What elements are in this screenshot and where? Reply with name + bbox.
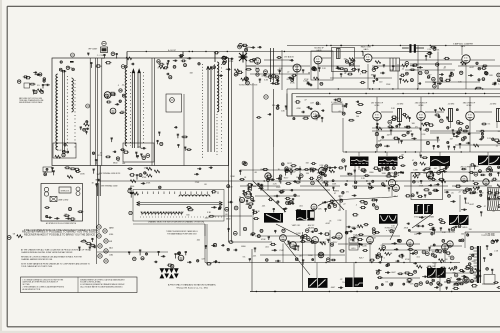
bottom mesh wire 3 <box>255 235 300 237</box>
svg-text:5%: 5% <box>396 173 399 175</box>
channel selector box <box>133 190 224 222</box>
coil L2A winding <box>125 68 127 146</box>
mid extra <box>318 200 369 225</box>
video det extra <box>293 100 321 120</box>
diagonal wire 1 <box>253 181 286 212</box>
IF mesh 1 <box>372 127 420 129</box>
osc converter cluster <box>214 45 255 63</box>
wire w <box>342 118 344 152</box>
svg-text:470K: 470K <box>235 74 240 76</box>
selector dotted row <box>140 216 222 218</box>
left FM trap boxes <box>43 168 55 176</box>
svg-text:270K: 270K <box>195 182 200 184</box>
left IF vertical <box>273 89 275 147</box>
left video drop <box>252 118 254 181</box>
svg-text:INTERLOCK: INTERLOCK <box>61 191 70 193</box>
tube V18 horiz AFC <box>367 237 374 244</box>
caption parts c <box>450 270 466 287</box>
tube V25 hor osc <box>483 179 489 185</box>
svg-text:.047: .047 <box>378 170 382 172</box>
tube V11 sync sep <box>318 167 325 174</box>
heater bus 2 <box>98 183 100 225</box>
svg-text:.05: .05 <box>100 152 103 154</box>
cathode drop <box>420 120 422 152</box>
wire to plates <box>402 47 409 49</box>
oscillator sub-box <box>123 143 154 162</box>
flyback right parts <box>483 239 499 283</box>
svg-text:.0047: .0047 <box>260 169 265 171</box>
cathode drop <box>376 120 378 152</box>
svg-text:120K: 120K <box>353 234 358 236</box>
svg-text:5%: 5% <box>243 257 246 259</box>
volume terminal 1 <box>256 68 259 71</box>
svg-text:R217: R217 <box>333 242 338 244</box>
tuner top extra <box>59 61 74 72</box>
svg-text:.001: .001 <box>299 205 303 207</box>
schematic bottom boundary <box>250 291 500 293</box>
oscillator trimmer box <box>166 94 182 112</box>
wire ps1 <box>214 215 252 217</box>
wire sy1 <box>260 189 330 191</box>
horizontal trunk <box>215 180 500 182</box>
B+ vertical trunk 2 <box>231 58 233 242</box>
above power box parts <box>64 167 85 178</box>
wire b1 <box>204 224 206 263</box>
sound vertical 3 <box>437 52 439 90</box>
svg-text:6AL5: 6AL5 <box>109 247 113 250</box>
svg-text:.0047: .0047 <box>391 272 396 274</box>
svg-text:120K: 120K <box>382 173 387 175</box>
svg-text:CHASSIS WERE AS SHOWN. SOME V: CHASSIS WERE AS SHOWN. SOME VERSIONS MAY… <box>21 251 73 254</box>
stage drop <box>282 243 284 262</box>
core line <box>61 70 63 152</box>
tuner sub-box <box>53 143 76 158</box>
svg-text:.001: .001 <box>196 239 200 241</box>
stage row wire <box>372 65 404 67</box>
bank B top parts <box>125 57 135 68</box>
waveform photo W4 <box>478 156 500 166</box>
bottom mesh wire 2 <box>380 249 440 251</box>
waveform photo W12 <box>427 268 446 278</box>
rectifier box <box>484 275 495 285</box>
sound IF shield box <box>311 51 333 80</box>
svg-text:LINE CORD: LINE CORD <box>58 200 69 202</box>
power extra 3 <box>377 252 442 286</box>
selector coil ticks <box>142 212 182 216</box>
svg-text:C142: C142 <box>276 187 281 189</box>
sound mesh 2 <box>330 77 392 79</box>
stage drop <box>314 243 316 262</box>
svg-text:470K: 470K <box>465 203 470 205</box>
svg-text:B+ BOOST: B+ BOOST <box>168 50 176 52</box>
B+ cluster <box>128 250 165 263</box>
bus drop 1 <box>126 52 128 66</box>
stage row wire <box>382 243 420 245</box>
vert hold control box <box>349 245 358 250</box>
svg-text:6800: 6800 <box>474 166 478 168</box>
vertical v2 <box>345 210 347 263</box>
plate feed <box>469 97 471 112</box>
wire m5 <box>252 212 254 236</box>
svg-text:.0047: .0047 <box>204 217 209 219</box>
svg-text:RECEIVER MAKES IT POSSIBLE TO: RECEIVER MAKES IT POSSIBLE TO BRING YOU … <box>22 230 100 234</box>
left edge parts <box>7 233 22 239</box>
svg-text:.001: .001 <box>416 257 420 259</box>
svg-text:47: 47 <box>412 160 414 162</box>
svg-text:.5: .5 <box>417 182 419 184</box>
coil L3 inner lead <box>214 64 216 152</box>
stage row wire <box>430 245 462 247</box>
stage row wire <box>430 130 470 132</box>
tube V20 damper <box>442 244 449 251</box>
tuner top mid parts <box>157 60 170 70</box>
svg-text:5%: 5% <box>470 282 473 284</box>
svg-text:.5: .5 <box>118 85 120 87</box>
vert osc parts <box>227 228 313 264</box>
waveform photo W2 <box>378 157 399 167</box>
yoke box 1 <box>488 188 500 199</box>
bus drop 4 <box>362 52 364 57</box>
svg-text:68: 68 <box>308 72 310 74</box>
svg-text:.05: .05 <box>394 196 397 198</box>
svg-text:CHANNEL SELECTOR SWITCH (SHOWN: CHANNEL SELECTOR SWITCH (SHOWN ON CHANNE… <box>148 220 205 223</box>
shielded lead <box>270 48 272 82</box>
svg-text:.5: .5 <box>428 191 430 193</box>
terminal 6AB4 <box>238 45 242 49</box>
former dots A <box>66 76 68 150</box>
IF transformer T3 <box>449 109 453 122</box>
svg-text:470K: 470K <box>423 173 428 175</box>
svg-text:.22: .22 <box>287 71 290 73</box>
sound stage drop <box>437 64 439 89</box>
tube V28 vert osc b <box>290 242 297 249</box>
video det parts <box>301 98 347 122</box>
former dots C <box>221 64 223 152</box>
coil L1B winding <box>72 78 74 112</box>
top labels <box>239 43 262 51</box>
vertical v3 <box>329 230 331 263</box>
plate feed <box>420 97 422 112</box>
antenna block <box>24 83 30 88</box>
stage row wire <box>410 63 452 65</box>
audio section extra <box>246 56 296 85</box>
damper parts <box>439 222 469 236</box>
svg-text:.001: .001 <box>317 104 321 106</box>
svg-text:68: 68 <box>225 214 227 216</box>
svg-text:.047: .047 <box>299 255 303 257</box>
svg-text:.001: .001 <box>265 247 269 249</box>
wire if2 <box>425 111 444 113</box>
right of selector parts <box>208 191 233 221</box>
svg-text:.22: .22 <box>380 245 383 247</box>
svg-text:.001: .001 <box>438 252 442 254</box>
wire m2 <box>419 152 421 156</box>
svg-text:.5: .5 <box>396 181 398 183</box>
photo lead b3 <box>439 166 441 170</box>
selector coil row 1 <box>179 195 210 197</box>
waveform captions <box>347 166 403 175</box>
svg-text:C142: C142 <box>326 239 331 241</box>
svg-text:68: 68 <box>118 160 120 162</box>
AC power box <box>41 184 83 222</box>
photo lead <box>358 152 360 156</box>
wire sy6 <box>299 166 301 181</box>
sync mesh 3 <box>446 171 500 173</box>
AFC extra <box>372 225 435 258</box>
AGC parts <box>248 201 302 216</box>
xfmr lead <box>399 122 401 129</box>
osc top parts <box>213 56 234 77</box>
bottom mesh wire 1 <box>260 254 345 256</box>
svg-text:270K: 270K <box>229 61 234 63</box>
waveform photo W9 <box>449 215 469 225</box>
wire if3 <box>474 111 492 113</box>
svg-text:100: 100 <box>436 268 439 270</box>
stage row wire <box>380 277 420 279</box>
svg-text:470K: 470K <box>290 83 295 85</box>
svg-text:120K: 120K <box>362 246 367 248</box>
wire cs <box>98 180 133 182</box>
section boundary vertical <box>302 232 304 292</box>
wire to W11 <box>353 263 355 278</box>
AGC bus <box>292 93 500 95</box>
xfmr lead <box>496 122 498 129</box>
svg-text:68: 68 <box>445 259 447 261</box>
sound top wire <box>287 45 500 47</box>
left sound parts <box>234 69 252 81</box>
selector contact ticks <box>137 192 218 195</box>
svg-text:1ST AUDIO: 1ST AUDIO <box>284 56 294 59</box>
tube V8 1st video IF <box>373 112 382 121</box>
svg-text:.047: .047 <box>449 138 453 140</box>
stage row wire <box>318 65 360 67</box>
IF mesh 3 <box>380 139 440 141</box>
wire sy8 <box>469 166 471 181</box>
svg-text:470K: 470K <box>304 79 309 81</box>
svg-text:120K: 120K <box>332 184 337 186</box>
svg-text:.5: .5 <box>383 258 385 260</box>
B+ top bus <box>127 51 430 53</box>
waveform photo W7 <box>414 204 433 214</box>
selector coil row 2 <box>141 212 183 214</box>
tuner right col extra <box>111 85 126 160</box>
sound stage drop <box>367 64 369 89</box>
sync extra D <box>445 166 500 213</box>
svg-text:.0047: .0047 <box>469 204 474 206</box>
flyback left drop <box>464 232 466 248</box>
power transformer ticks <box>474 248 477 281</box>
wire sy4 <box>391 187 393 196</box>
IF lower extra <box>376 121 500 148</box>
flyback left parts <box>470 246 481 280</box>
tuner mid top extra <box>163 60 200 79</box>
wire p3 <box>482 283 495 285</box>
wire s3 <box>372 57 390 59</box>
svg-text:5%: 5% <box>385 281 388 283</box>
tube V26 video output <box>245 192 252 199</box>
trimmer <box>170 98 175 103</box>
cathode drop <box>469 120 471 152</box>
svg-text:R217: R217 <box>432 262 437 264</box>
svg-text:R217: R217 <box>338 196 343 198</box>
coil L3 winding <box>217 62 219 112</box>
yoke box 2 <box>488 200 500 211</box>
fine tuning parts <box>87 52 118 68</box>
wire sy3 <box>429 166 431 181</box>
tube V13 phase det <box>388 179 395 186</box>
between photos parts <box>398 154 428 165</box>
deflection parts <box>455 184 500 216</box>
svg-text:6800: 6800 <box>130 186 134 188</box>
tube V17 vert out <box>312 237 319 244</box>
svg-text:RECEIVER MAKES IT POSSIBLE TO: RECEIVER MAKES IT POSSIBLE TO BRING YOU … <box>24 233 95 236</box>
crossed hub component <box>239 52 248 63</box>
bus parts <box>179 55 192 62</box>
svg-text:5%: 5% <box>37 85 40 87</box>
AGC drop <box>291 94 293 117</box>
svg-text:6CB6: 6CB6 <box>467 105 472 107</box>
svg-text:.0047: .0047 <box>288 168 293 170</box>
svg-text:6AW8: 6AW8 <box>109 227 114 230</box>
plate feed <box>376 97 378 112</box>
svg-text:YOUR CHASSIS AT NO POINTS THIS: YOUR CHASSIS AT NO POINTS THIS. <box>21 265 53 268</box>
RF unit connector <box>101 47 108 53</box>
audio wire <box>264 59 293 61</box>
former dots B <box>129 72 131 146</box>
svg-text:68: 68 <box>317 169 319 171</box>
svg-text:.047: .047 <box>377 140 381 142</box>
photo lead <box>487 152 489 156</box>
vert section boundary <box>251 249 253 292</box>
stage drop <box>409 243 411 262</box>
horiz AFC parts <box>408 227 474 258</box>
svg-text:1MEG: 1MEG <box>371 74 377 76</box>
svg-text:47: 47 <box>316 119 318 121</box>
IF transformer T4 <box>497 109 500 122</box>
wire s5 <box>470 59 495 61</box>
tube V2 mixer <box>110 108 116 114</box>
note box <box>21 277 138 293</box>
bus drop 3 <box>182 52 184 57</box>
stage row wire <box>352 185 392 187</box>
ratio det parts <box>339 60 409 84</box>
above selector extra <box>194 167 235 189</box>
wire if1 <box>381 111 393 113</box>
wire to W12 <box>434 263 436 268</box>
sync mesh 1 <box>240 169 318 171</box>
svg-text:330: 330 <box>338 210 341 212</box>
audio output cluster <box>167 252 218 268</box>
wire b2 <box>97 251 168 253</box>
IF left extra <box>345 101 364 122</box>
svg-text:R217: R217 <box>97 155 102 157</box>
bus drop 2 <box>214 52 216 63</box>
sound vertical 2 <box>417 46 419 90</box>
diagonal wire 5 <box>316 179 344 210</box>
svg-text:68: 68 <box>255 172 257 174</box>
svg-text:5%: 5% <box>272 79 275 81</box>
core line 2 <box>63 70 65 152</box>
right edge sound parts <box>468 67 500 84</box>
wire sy7 <box>354 166 356 181</box>
stage row wire <box>300 185 340 187</box>
stage row wire <box>246 65 310 67</box>
tuner partition a <box>95 58 97 166</box>
svg-text:5%: 5% <box>346 191 349 193</box>
svg-text:120K: 120K <box>308 255 313 257</box>
svg-text:C142: C142 <box>57 150 62 152</box>
AGC extra <box>250 195 294 220</box>
tube V30 <box>336 233 342 239</box>
rectifier parts <box>446 273 500 290</box>
sound stage drop <box>296 64 298 89</box>
svg-text:270K: 270K <box>419 185 424 187</box>
tube V4 sound IF <box>314 56 322 64</box>
svg-text:68: 68 <box>450 277 452 279</box>
svg-text:TO PIX TUBE: TO PIX TUBE <box>485 234 494 236</box>
svg-text:SET THIS.: SET THIS. <box>23 284 31 286</box>
svg-text:100: 100 <box>356 116 359 118</box>
tube V3b limiter <box>254 58 260 64</box>
svg-text:.001: .001 <box>433 168 437 170</box>
wire m3 <box>459 195 461 212</box>
svg-text:6AB4: 6AB4 <box>246 46 250 49</box>
tuner shield a <box>89 58 91 166</box>
svg-text:.5: .5 <box>360 73 362 75</box>
svg-text:6800: 6800 <box>226 218 230 220</box>
vert out parts <box>311 227 399 261</box>
svg-text:470K: 470K <box>80 174 85 176</box>
sound mesh 3 <box>405 69 455 71</box>
tube V1 RF AMP <box>104 92 111 99</box>
tube V31 damper b <box>447 241 453 247</box>
tube V23 sync phase inv <box>393 185 400 192</box>
sound stage drop <box>317 64 319 89</box>
stage row wire <box>240 185 280 187</box>
waveform photo W5 <box>264 213 283 223</box>
filter parts <box>440 257 473 272</box>
heater bus <box>95 183 97 264</box>
vertical v4 <box>204 224 206 236</box>
waveform photo W8 <box>379 214 398 224</box>
antenna network <box>29 83 50 94</box>
ratio det transformer box <box>332 48 355 72</box>
video IF lower parts <box>375 120 500 150</box>
oscillator bottom parts <box>123 147 150 160</box>
svg-text:4.5 MHZ: 4.5 MHZ <box>490 104 496 106</box>
coil L2 slug rods <box>132 69 140 148</box>
upper left parts <box>18 71 46 83</box>
svg-text:68: 68 <box>373 238 375 240</box>
diagonal wire 3 <box>284 242 310 275</box>
svg-text:68: 68 <box>402 154 404 156</box>
selector terminal L2 <box>129 211 132 214</box>
svg-text:12B4: 12B4 <box>109 254 113 256</box>
clamper extra <box>432 57 500 88</box>
svg-text:C142: C142 <box>285 202 290 204</box>
svg-text:4.5 MHZ: 4.5 MHZ <box>448 104 454 106</box>
mixer bottom parts <box>92 151 126 165</box>
svg-text:47: 47 <box>334 193 336 195</box>
svg-text:TUNED IN THIS POSITION: TUNED IN THIS POSITION <box>239 85 257 87</box>
svg-text:.5: .5 <box>356 205 358 207</box>
left vert trunk <box>97 166 99 197</box>
heater string tubes <box>97 225 108 263</box>
test point TP1 <box>102 41 106 45</box>
photo lead b2 <box>386 166 388 170</box>
svg-text:470K: 470K <box>296 108 301 110</box>
mid parts <box>322 196 367 212</box>
